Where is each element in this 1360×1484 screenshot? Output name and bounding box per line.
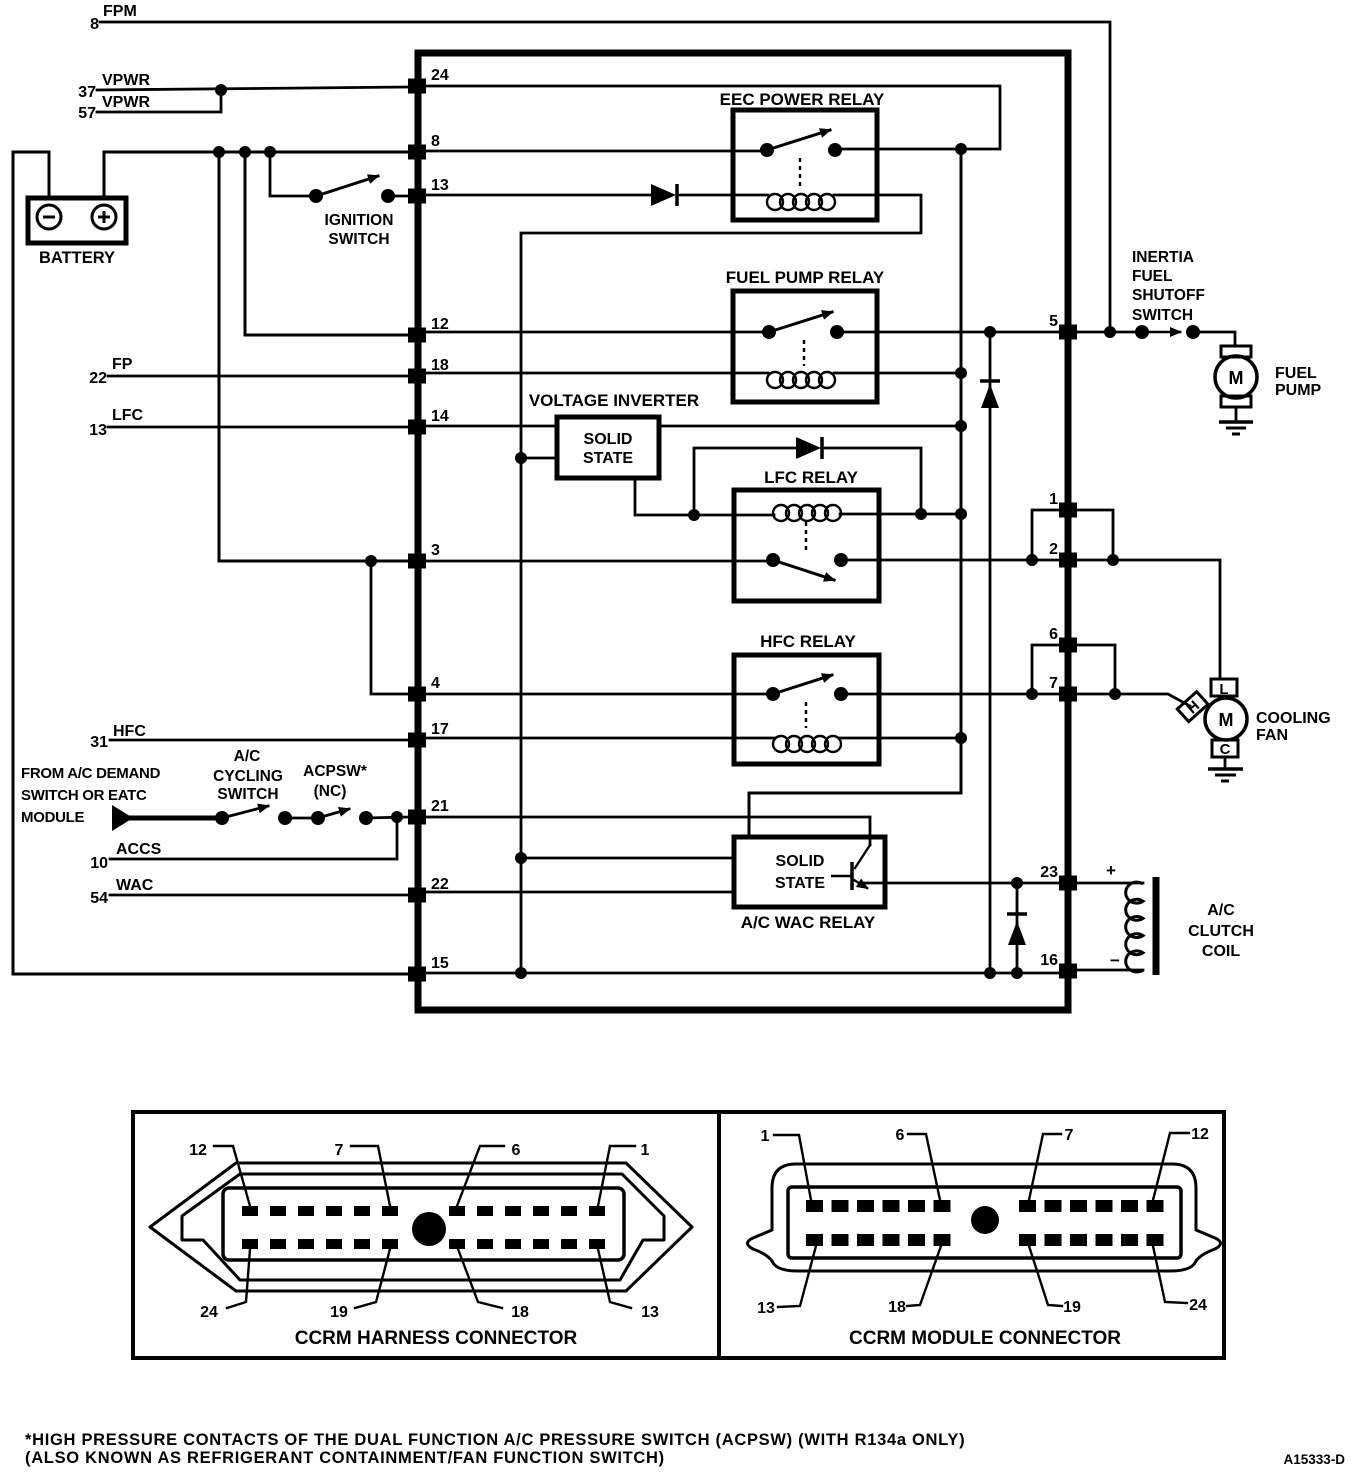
svg-text:A/C WAC RELAY: A/C WAC RELAY [741,913,876,932]
HFC relay switch arm [773,675,832,694]
svg-text:18: 18 [888,1299,906,1316]
CCRM module connector pin field [788,1187,1181,1258]
svg-text:22: 22 [431,876,449,893]
svg-text:STATE: STATE [775,875,825,892]
junction pin 6 / pin 7 external [1109,688,1121,700]
svg-text:18: 18 [431,357,449,374]
wire fuel pump relay output to pin 5 [837,331,1060,334]
svg-text:13: 13 [641,1304,659,1321]
wire pin 1 internal jumper [1032,510,1060,560]
wire LFC relay output to pin 2 [841,559,1060,562]
pin 21 pad (CCRM left edge) [408,810,426,825]
junction pin 6 jumper to pin 7 line (internal) [1026,688,1038,700]
pin 6 pad (CCRM right edge) [1059,638,1077,653]
svg-text:8: 8 [431,133,440,150]
svg-text:12: 12 [431,316,449,333]
pin 8 pad (CCRM left edge) [408,145,426,160]
pin 3 pad (CCRM left edge) [408,554,426,569]
svg-text:13: 13 [89,422,107,439]
CCRM module connector pins top row [806,1200,1164,1212]
junction ACCS joins pin 21 wire [391,811,403,823]
wire diode bypass to coil return [825,448,921,514]
svg-text:HFC: HFC [113,723,146,740]
svg-text:FP: FP [112,356,133,373]
wire battery rail branch to CCRM pin 3 [219,152,408,561]
ground symbol (cooling fan) [1208,769,1243,781]
LFC relay switch arm [773,560,834,580]
wire LFC coil bypass diode loop [694,448,796,515]
junction battery rail to pin 12 branch [239,146,251,158]
wire pin 12 to fuel pump relay switch [426,331,769,334]
svg-text:17: 17 [431,721,449,738]
svg-text:L: L [1219,681,1228,698]
fuel pump relay actuation link (dashed) [803,340,805,366]
svg-text:7: 7 [1049,675,1058,692]
svg-text:12: 12 [189,1142,207,1159]
LFC relay switch contacts [766,553,848,567]
svg-text:57: 57 [78,105,96,122]
wire cycling switch to ACPSW [285,817,318,820]
svg-text:23: 23 [1040,864,1058,881]
junction VPWR rail / LFC coil [955,508,967,520]
junction FPM line at pin 5 wire [1104,326,1116,338]
CCRM harness connector center post [412,1212,446,1246]
svg-text:2: 2 [1049,541,1058,558]
svg-text:STATE: STATE [583,450,633,467]
svg-text:19: 19 [1063,1299,1081,1316]
svg-text:*HIGH PRESSURE CONTACTS OF THE: *HIGH PRESSURE CONTACTS OF THE DUAL FUNC… [25,1431,965,1449]
svg-text:VPWR: VPWR [102,72,150,89]
svg-text:FUEL: FUEL [1132,268,1172,285]
wire pin 8 to EEC relay switch [426,150,767,153]
junction VPWR 37/57 [215,84,227,96]
wire battery positive rail to CCRM pin 8 [104,152,408,198]
svg-text:6: 6 [512,1142,521,1159]
HFC relay actuation link (dashed) [805,702,807,728]
diode D2 across LFC coil [796,437,822,459]
wire pin 5 to inertia fuel shutoff switch [1076,331,1142,334]
junction pin 3 / pin 4 branch [365,555,377,567]
svg-text:COIL: COIL [1202,943,1240,960]
wire inertia switch to fuel pump [1193,332,1235,346]
wire pin 3 to LFC relay switch [426,560,773,563]
wire battery rail branch to CCRM pin 12 [245,152,408,335]
svg-text:1: 1 [761,1128,770,1145]
wire A/C demand feed to cycling switch [131,816,222,821]
junction LFC coil feed / diode bypass [688,509,700,521]
wire fuel pump coil return to VPWR rail [834,372,961,375]
svg-text:FROM A/C DEMAND: FROM A/C DEMAND [21,765,161,782]
wire pin 18 to fuel pump relay coil [426,372,768,375]
CCRM harness connector outline (inner) [182,1174,664,1280]
junction battery rail to pin 3 branch [213,146,225,158]
wire WAC relay output to pin 23 [864,882,1060,885]
svg-text:HFC RELAY: HFC RELAY [760,632,856,651]
CCRM module connector outline (outer) [748,1164,1221,1271]
svg-text:SOLID: SOLID [584,431,633,448]
svg-text:−: − [1110,951,1120,970]
leader line module pin 18 [907,1246,941,1306]
wire VPWR 57 joins VPWR 37 [97,90,221,112]
wire pin 13 to EEC relay coil [426,194,651,197]
leader line module pin 6 [908,1134,940,1200]
pin 18 pad (CCRM left edge) [408,369,426,384]
svg-text:7: 7 [335,1142,344,1159]
pin 7 pad (CCRM right edge) [1059,687,1077,702]
pin 5 pad (CCRM right edge) [1059,325,1077,340]
transistor Q1 in WAC relay [831,845,870,890]
wire ground rail to WAC relay [521,857,734,860]
svg-text:SOLID: SOLID [776,853,825,870]
EEC relay coil [767,194,835,210]
junction VPWR rail / HFC coil [955,732,967,744]
svg-text:5: 5 [1049,313,1058,330]
svg-text:1: 1 [1049,491,1058,508]
pin 1 pad (CCRM right edge) [1059,503,1077,518]
svg-text:SWITCH: SWITCH [217,786,278,803]
pin 12 pad (CCRM left edge) [408,328,426,343]
svg-text:MODULE: MODULE [21,809,84,826]
wire HFC relay output to pin 7 [841,693,1060,696]
svg-text:FUEL: FUEL [1275,365,1317,382]
junction battery rail to ignition switch branch [264,146,276,158]
wire LFC coil feed [694,514,774,517]
svg-text:54: 54 [90,890,108,907]
wire pin 17 to HFC relay coil [426,737,774,740]
HFC relay coil [773,736,841,752]
EEC relay switch contacts [760,143,842,157]
CCRM module connector center post [971,1206,999,1234]
wire ground rail to inverter [521,457,557,460]
svg-text:(NC): (NC) [314,783,347,800]
ignition switch [309,176,395,203]
wire battery rail to ignition switch [270,152,316,196]
relay K3 LFC relay box [734,490,879,601]
ground symbol (fuel pump) [1219,422,1253,434]
CCRM harness connector pins bottom row [242,1239,605,1249]
fuel pump relay switch arm [769,312,832,332]
svg-text:SWITCH: SWITCH [1132,307,1193,324]
pin 22 pad (CCRM left edge) [408,888,426,903]
svg-text:24: 24 [431,67,449,84]
wire pin 23 to A/C clutch coil (+) [1076,882,1143,885]
svg-text:37: 37 [78,84,96,101]
relay K2 fuel pump relay box [733,291,877,402]
svg-text:24: 24 [1189,1297,1207,1314]
svg-text:7: 7 [1065,1127,1074,1144]
wire A/C clutch coil (-) to pin 16 [1076,969,1143,972]
pin 24 pad (CCRM left edge) [408,79,426,94]
wire ACPSW to CCRM pin 21 [366,817,408,818]
svg-text:EEC POWER RELAY: EEC POWER RELAY [720,90,885,109]
wire HFC coil return to VPWR rail [840,737,961,740]
fuel pump relay coil [767,372,835,388]
ACPSW switch (NC) [311,809,373,825]
LFC relay coil [773,505,841,521]
svg-text:13: 13 [757,1300,775,1317]
wire inverter bottom output to LFC coil [635,478,694,515]
wire branch to CCRM pin 4 [371,561,408,694]
wire ground line pin 15 to pin 16 [426,972,1060,975]
svg-text:CCRM HARNESS CONNECTOR: CCRM HARNESS CONNECTOR [295,1328,578,1349]
junction VPWR rail tap at EEC relay output [955,143,967,155]
pin 23 pad (CCRM right edge) [1059,876,1077,891]
svg-text:12: 12 [1191,1126,1209,1143]
CCRM module box [418,53,1068,1010]
svg-text:SWITCH: SWITCH [328,231,389,248]
svg-text:FPM: FPM [103,3,137,20]
svg-text:24: 24 [200,1304,218,1321]
svg-text:BATTERY: BATTERY [39,249,115,267]
wire diode to EEC coil [680,194,768,197]
wire pin 1 external jumper [1076,510,1113,560]
svg-text:C: C [1220,741,1231,758]
svg-text:+: + [1106,861,1116,880]
diode D3 clamp on fuel pump output [980,381,1000,408]
svg-text:8: 8 [90,16,99,33]
svg-text:31: 31 [90,734,108,751]
wire HFC signal to CCRM pin 17 [110,739,408,742]
svg-text:A/C: A/C [1207,902,1235,919]
inertia fuel shutoff switch [1135,325,1200,339]
svg-text:(ALSO KNOWN AS REFRIGERANT CON: (ALSO KNOWN AS REFRIGERANT CONTAINMENT/F… [25,1449,665,1467]
EEC relay actuation link (dashed) [799,158,801,186]
junction pin 1 / pin 2 external [1107,554,1119,566]
junction ground rail to WAC relay [515,852,527,864]
arrow A/C demand input [112,805,133,831]
wire pin 6 external jumper [1076,645,1115,694]
connector detail outer frame [133,1112,1224,1358]
svg-text:VPWR: VPWR [102,94,150,111]
CCRM harness connector outline (outer) [150,1163,692,1291]
pin 15 pad (CCRM left edge) [408,967,426,982]
svg-text:15: 15 [431,955,449,972]
svg-text:4: 4 [431,675,440,692]
pin 2 pad (CCRM right edge) [1059,553,1077,568]
svg-text:13: 13 [431,177,449,194]
leader line module pin 24 [1153,1246,1187,1303]
svg-text:IGNITION: IGNITION [325,212,394,229]
svg-text:LFC: LFC [112,407,144,424]
wire fuel pump to ground [1235,407,1238,422]
wire clamp diode 2 rail [1016,883,1019,973]
svg-text:22: 22 [89,370,107,387]
svg-text:FUEL PUMP RELAY: FUEL PUMP RELAY [726,268,885,287]
leader line module pin 7 [1029,1134,1061,1200]
junction ground rail to inverter [515,452,527,464]
svg-text:CLUTCH: CLUTCH [1188,923,1254,940]
svg-text:FAN: FAN [1256,727,1288,744]
pin 16 pad (CCRM right edge) [1059,964,1077,979]
svg-text:A/C: A/C [234,748,261,765]
svg-text:16: 16 [1040,952,1058,969]
junction clamp diode rail at pin 5 wire [984,326,996,338]
wire battery negative to CCRM pin 15 (ground return) [13,152,408,974]
leader line module pin 19 [1029,1246,1062,1306]
svg-text:21: 21 [431,798,449,815]
leader line harness pin 24 [227,1249,250,1308]
inductor A/C clutch coil [1126,882,1143,972]
wire clamp diode rail (pin 5 to ground line) [989,332,992,973]
diode D4 clamp on A/C clutch output [1007,914,1027,945]
junction VPWR rail / FP coil [955,367,967,379]
leader line module pin 1 [774,1135,811,1200]
junction clamp diode 2 at pin 16 wire [1011,967,1023,979]
relay K4 HFC relay box [734,655,879,764]
wire VPWR 37 to CCRM pin 24 [97,87,408,90]
wire VPWR rail from EEC output down to WAC relay [749,149,961,837]
svg-text:CCRM MODULE CONNECTOR: CCRM MODULE CONNECTOR [849,1328,1121,1349]
wire pin 4 to HFC relay switch [426,693,773,696]
pin 17 pad (CCRM left edge) [408,733,426,748]
CCRM harness connector pin field [223,1188,624,1260]
svg-text:LFC RELAY: LFC RELAY [764,468,858,487]
pin 4 pad (CCRM left edge) [408,687,426,702]
connector detail divider [717,1112,721,1358]
CCRM harness connector pins top row [242,1206,605,1216]
svg-text:A15333-D: A15333-D [1283,1452,1345,1467]
leader line harness pin 1 [598,1146,635,1206]
wire WAC signal to CCRM pin 22 [110,894,408,897]
wire ACCS to pin 21 junction [110,817,397,859]
svg-text:SWITCH OR EATC: SWITCH OR EATC [21,787,147,804]
EEC relay switch arm [767,130,830,150]
svg-text:PUMP: PUMP [1275,382,1322,399]
A/C cycling switch [215,806,292,825]
svg-text:14: 14 [431,408,449,425]
svg-text:WAC: WAC [116,877,154,894]
wire LFC signal to CCRM pin 14 [108,426,408,429]
svg-text:COOLING: COOLING [1256,710,1331,727]
leader line harness pin 18 [458,1249,502,1308]
wire pin 22 to WAC relay [426,891,734,894]
A/C WAC relay solid state box [734,837,885,907]
LFC relay actuation link (dashed) [805,522,807,552]
leader line harness pin 6 [457,1146,504,1206]
wire inverter output to VPWR rail [659,425,961,428]
svg-text:6: 6 [1049,626,1058,643]
svg-text:10: 10 [90,855,108,872]
svg-text:ACCS: ACCS [116,841,162,858]
leader line harness pin 19 [355,1249,390,1308]
junction pin 1 jumper to pin 2 line (internal) [1026,554,1038,566]
wire LFC coil return to VPWR rail [840,513,961,516]
cooling fan motor M2 [1177,679,1247,757]
wire pin 24 to EEC relay contact (VPWR out) [426,86,1000,149]
voltage inverter solid state box [557,417,659,478]
HFC relay switch contacts [766,687,848,701]
junction ground rail at pin 15 line [515,967,527,979]
svg-text:ACPSW*: ACPSW* [303,763,368,780]
junction VPWR rail / inverter output [955,420,967,432]
wire pin 14 to voltage inverter input [426,425,557,428]
wire FP signal to CCRM pin 18 [108,375,408,378]
leader line harness pin 7 [351,1146,390,1206]
wire pin 6 internal jumper [1032,645,1060,694]
svg-text:1: 1 [641,1142,650,1159]
leader line module pin 12 [1153,1133,1189,1200]
diode D1 on pin 13 coil feed [651,184,677,206]
wire ignition switch to CCRM pin 13 [388,195,408,198]
svg-text:6: 6 [896,1127,905,1144]
svg-text:19: 19 [330,1304,348,1321]
svg-text:M: M [1219,710,1234,730]
leader line module pin 13 [778,1246,816,1307]
svg-text:INERTIA: INERTIA [1132,249,1194,266]
junction clamp diode 2 at pin 23 wire [1011,877,1023,889]
svg-text:18: 18 [511,1304,529,1321]
wire EEC coil return to ground rail [521,195,921,974]
wire pin 2 to cooling fan low terminal [1076,560,1220,679]
wire cooling fan to ground [1224,757,1227,769]
wire pin 7 to cooling fan high terminal [1076,694,1190,706]
svg-text:M: M [1229,368,1244,388]
junction diode bypass rejoin LFC coil [915,508,927,520]
leader line harness pin 13 [598,1249,631,1308]
leader line harness pin 12 [214,1146,250,1206]
pin 14 pad (CCRM left edge) [408,420,426,435]
battery [28,198,126,243]
wire FPM net: pin 8 to fuel pump line [100,22,1110,332]
fuel pump relay switch contacts [762,325,844,339]
pin 13 pad (CCRM left edge) [408,189,426,204]
svg-text:CYCLING: CYCLING [213,768,283,785]
junction clamp diode rail at ground line [984,967,996,979]
fuel pump motor M1 [1215,346,1257,407]
svg-text:SHUTOFF: SHUTOFF [1132,287,1205,304]
relay U1 EEC power relay box [733,110,877,220]
svg-text:VOLTAGE INVERTER: VOLTAGE INVERTER [529,391,699,410]
svg-text:3: 3 [431,542,440,559]
wire pin 21 to WAC relay transistor [426,817,870,845]
CCRM module connector pins bottom row [806,1234,1164,1246]
